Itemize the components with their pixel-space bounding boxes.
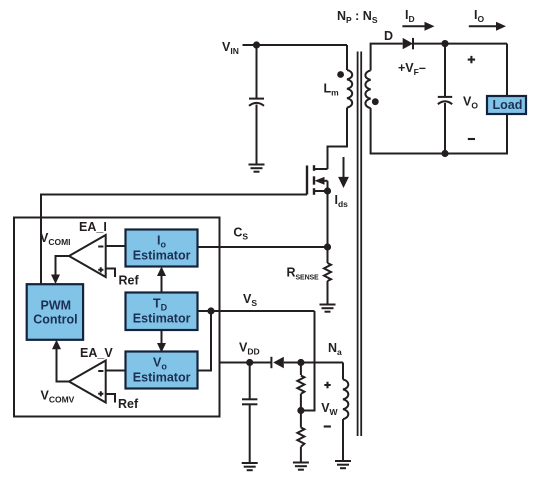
box TD Estimator	[126, 293, 198, 331]
controller outer box	[14, 218, 220, 417]
wire VDD cap lower	[249, 404, 251, 462]
arrow TD to Vo	[157, 330, 166, 353]
node divider mid	[297, 407, 304, 414]
wire EA_V ref stub	[106, 394, 115, 403]
wire gate	[41, 195, 307, 285]
wire RSENSE to ground	[327, 281, 329, 304]
label minus EA_I	[98, 246, 103, 248]
wire divider top	[300, 363, 302, 376]
wire primary top vertical	[346, 45, 348, 70]
label plus aux	[324, 382, 330, 388]
wire VS vertical down	[301, 311, 315, 411]
wire CS to controller	[198, 246, 328, 248]
wire diode to right rail	[413, 43, 507, 45]
label minus output	[468, 138, 475, 140]
ground RSENSE	[320, 305, 336, 312]
node secondary polarity dot	[372, 98, 379, 105]
transformer core	[358, 52, 362, 437]
svg-text:EA_V: EA_V	[80, 346, 113, 360]
label plus EA_I	[98, 267, 103, 272]
wire divider mid to R2	[300, 411, 302, 428]
label minus aux	[324, 425, 331, 427]
arrow EA_I into PWM	[51, 275, 60, 285]
wire EA_I output to PWM	[56, 256, 70, 277]
resistor divider R1	[297, 376, 304, 394]
wire EA_V output to PWM	[57, 348, 70, 382]
ground aux	[335, 461, 351, 468]
node MOSFET source	[324, 187, 331, 194]
node output cap bottom	[441, 150, 448, 157]
svg-text:Estimator: Estimator	[133, 371, 191, 385]
box Vo Estimator	[126, 352, 198, 389]
wire VIN cap lower	[256, 105, 258, 165]
svg-text:+VF–: +VF–	[398, 61, 426, 77]
wire bottom secondary return	[371, 108, 507, 153]
wire secondary top to diode	[371, 44, 403, 71]
diode D	[403, 38, 413, 49]
ground divider	[293, 463, 309, 470]
wire Io estimator to EA_I minus	[106, 245, 126, 247]
svg-text:Control: Control	[33, 313, 77, 327]
load box	[487, 96, 526, 114]
svg-text:D: D	[384, 29, 393, 43]
box Io Estimator	[126, 230, 198, 267]
wire right rail upper	[506, 44, 508, 96]
wire diode to aux winding	[284, 362, 343, 364]
node VIN cap tap	[253, 41, 260, 48]
resistor RSENSE	[324, 263, 331, 281]
wire VDD cap upper	[249, 363, 251, 400]
node VDD	[246, 359, 253, 366]
node output cap top	[441, 40, 448, 47]
op-amp EA_I	[69, 235, 106, 277]
node CS	[324, 243, 331, 250]
svg-text:Ref: Ref	[119, 274, 140, 288]
op-amp EA_V	[69, 361, 106, 403]
arrow EA_V into PWM	[52, 340, 61, 350]
wire Vo estimator to EA_V minus	[106, 370, 126, 372]
label plus output	[468, 56, 475, 63]
wire VS branch to Vo estimator	[198, 311, 212, 371]
svg-text:Ref: Ref	[118, 397, 139, 411]
label minus EA_V	[98, 370, 103, 372]
node VS branch	[207, 307, 214, 314]
resistor divider R2	[297, 428, 304, 447]
svg-text:NP : NS: NP : NS	[337, 9, 378, 25]
node primary polarity dot	[337, 71, 344, 78]
arrow Ids	[338, 157, 349, 188]
inductor primary Lm	[347, 70, 352, 108]
ground VDD cap	[242, 463, 258, 470]
wire R1 to node	[300, 394, 302, 411]
inductor secondary	[365, 71, 370, 109]
wire output cap upper	[444, 44, 446, 97]
ground input	[249, 165, 265, 172]
wire VS from TD estimator	[198, 310, 315, 312]
capacitor input C	[249, 99, 264, 106]
svg-text:Load: Load	[493, 98, 523, 112]
MOSFET Q1	[307, 165, 328, 195]
svg-text:Estimator: Estimator	[133, 312, 191, 326]
wire primary bottom to drain	[328, 108, 348, 169]
wire aux winding bottom	[342, 419, 344, 460]
wire aux winding top	[342, 363, 344, 380]
wire VDD rail	[220, 362, 272, 364]
svg-text:Estimator: Estimator	[133, 249, 191, 263]
wire VIN cap upper	[256, 45, 258, 98]
diode aux	[271, 357, 283, 368]
box PWM Control	[27, 284, 83, 340]
label plus EA_V	[98, 391, 103, 396]
node divider top	[297, 359, 304, 366]
capacitor output C	[438, 97, 452, 104]
wire VIN top	[243, 44, 348, 46]
wire source to CS node	[327, 191, 329, 263]
svg-text:EA_I: EA_I	[79, 220, 107, 234]
svg-text:PWM: PWM	[41, 299, 72, 313]
wire output cap lower	[444, 103, 446, 154]
wire EA_I ref stub	[106, 269, 115, 278]
wire R2 to ground	[300, 447, 302, 462]
arrow IO	[469, 22, 506, 31]
arrow ID	[402, 22, 434, 31]
inductor aux Na	[343, 380, 348, 420]
arrow TD to Io	[157, 267, 166, 293]
capacitor VDD	[242, 399, 257, 404]
